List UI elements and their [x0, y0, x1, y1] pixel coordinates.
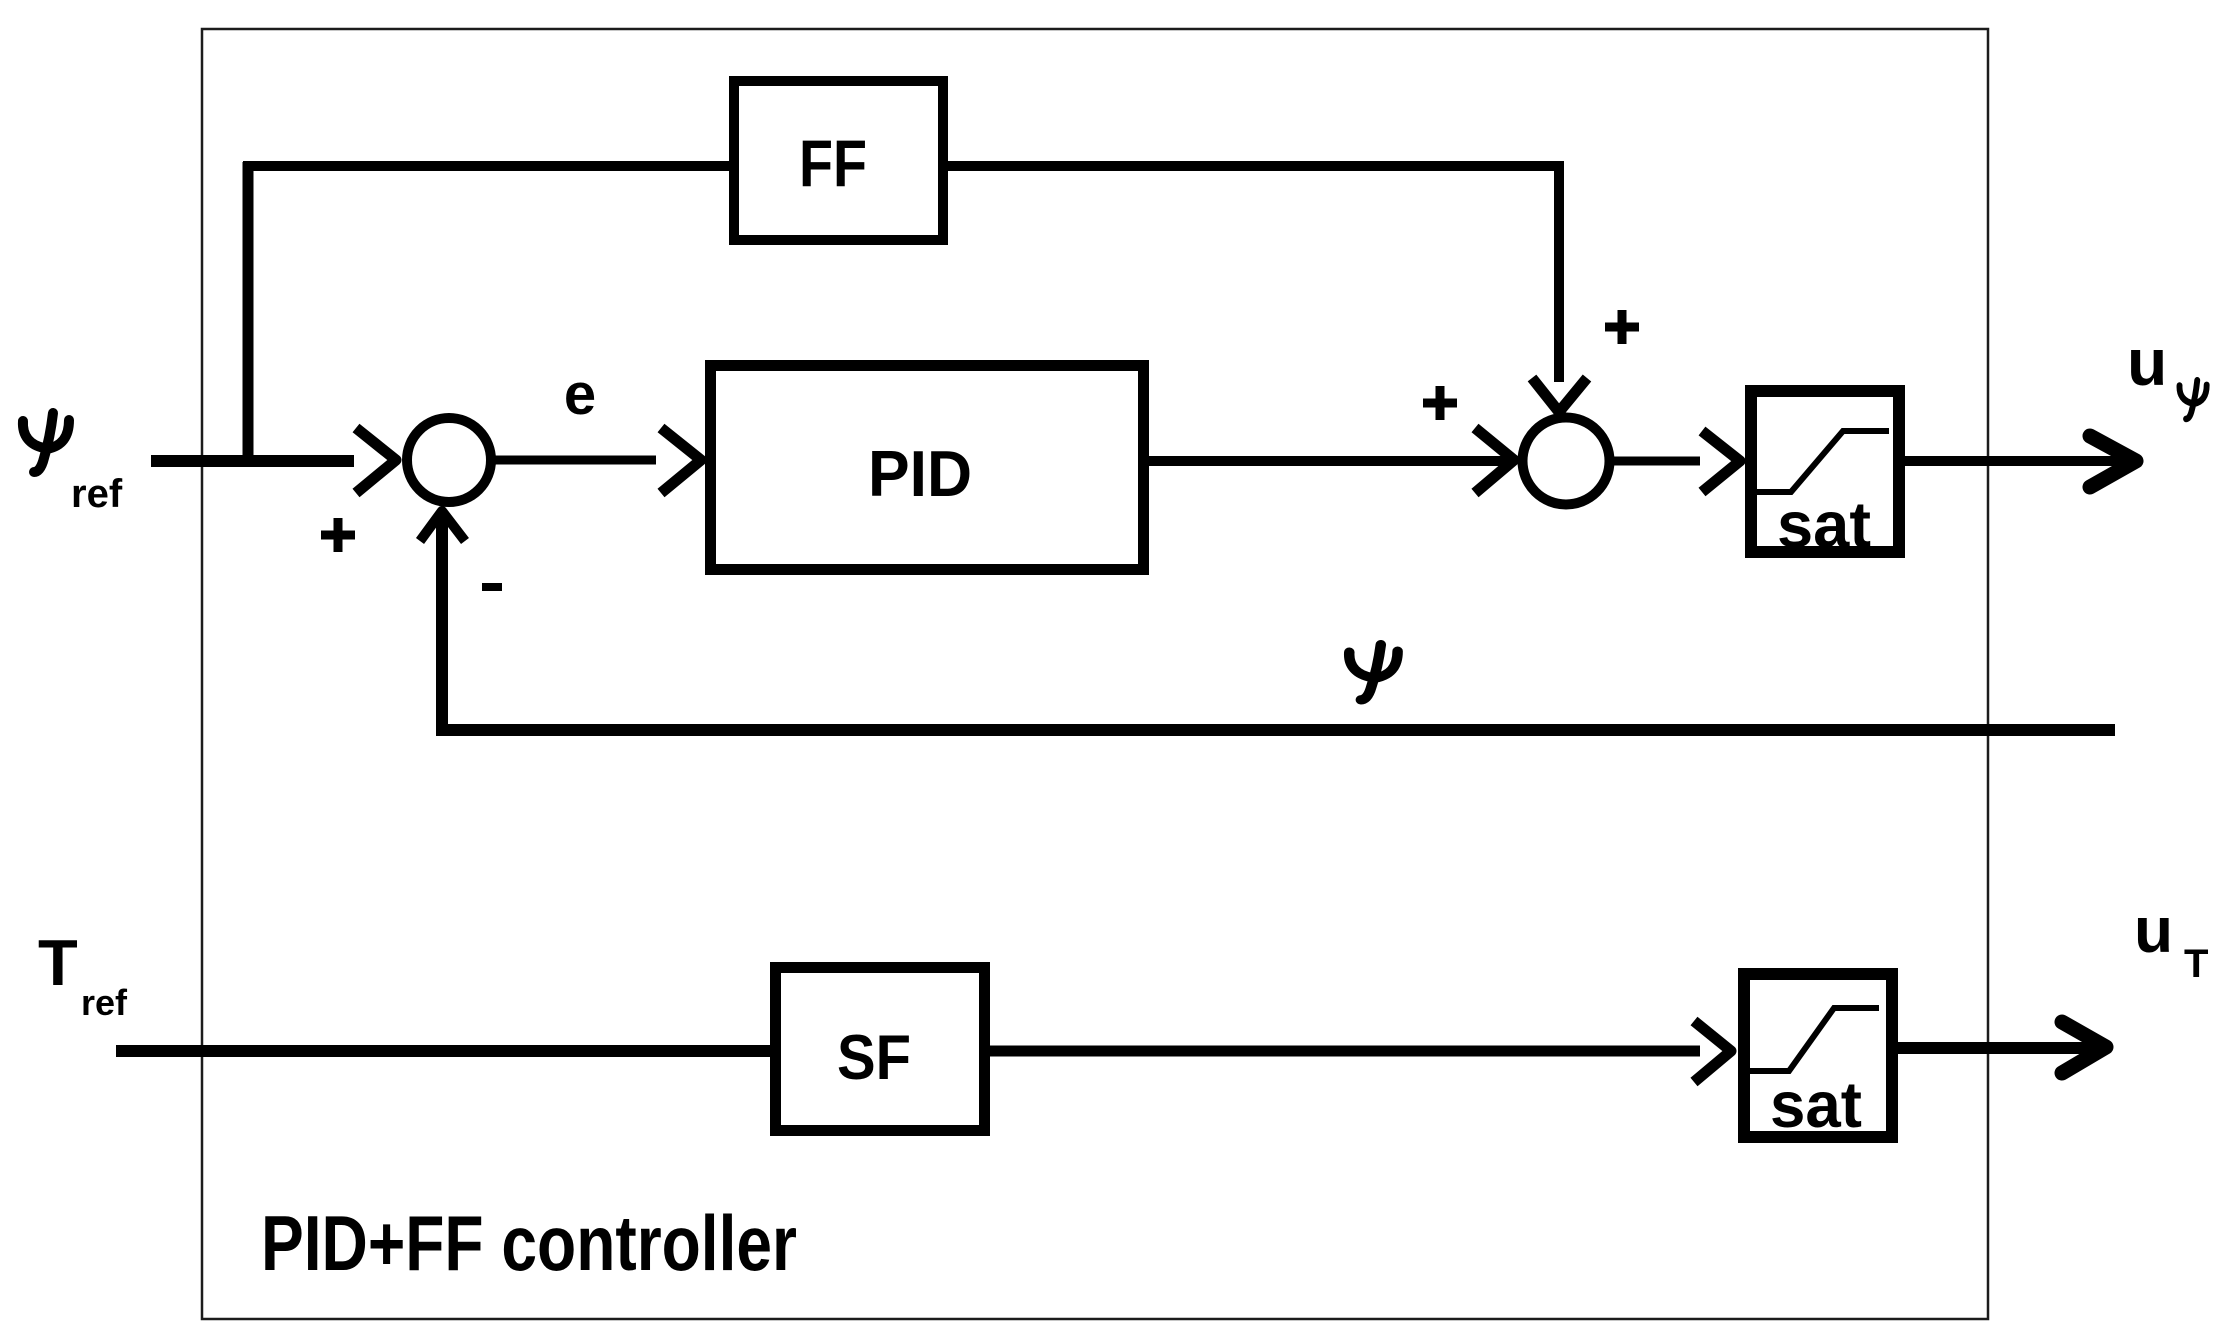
wire: error signal e: [490, 456, 656, 465]
wire: branch riser to FF: [243, 162, 254, 466]
svg-text:ref: ref: [71, 472, 123, 516]
wire: FF input: [243, 161, 733, 171]
label u_T: [2134, 894, 2208, 986]
block FF: [734, 81, 943, 240]
output arrowhead u_T: [2062, 1022, 2106, 1073]
wire: psi feedback: [442, 513, 2115, 730]
svg-text:PID: PID: [868, 437, 972, 510]
wire: psi_ref input: [151, 455, 354, 467]
arrowhead into PID: [661, 428, 701, 493]
plus sign at S1 input: [321, 518, 355, 552]
block PID: [711, 366, 1144, 570]
minus sign at S1 feedback input: [482, 583, 502, 591]
arrowhead up into S1 bottom: [420, 511, 465, 541]
svg-text:ref: ref: [81, 982, 128, 1023]
output arrowhead u_psi: [2090, 436, 2136, 487]
svg-text:sat: sat: [1770, 1068, 1862, 1141]
label T_ref: [38, 926, 128, 1023]
label u_psi: [2127, 325, 2207, 419]
wire: FF output to junction above S2: [943, 166, 1559, 382]
svg-text:PID+FF controller: PID+FF controller: [261, 1199, 797, 1287]
svg-text:e: e: [564, 362, 596, 427]
svg-text:u: u: [2127, 325, 2167, 399]
wire: SF output: [985, 1046, 1700, 1057]
block sat2 (saturation): [1744, 974, 1892, 1141]
summing junction S1: [407, 418, 491, 502]
svg-text:u: u: [2134, 894, 2173, 966]
arrowhead into summing junction S1: [356, 428, 396, 493]
block SF: [776, 968, 985, 1131]
wire: S2 output: [1609, 457, 1700, 466]
controller boundary box (PID+FF controller): [202, 29, 1988, 1319]
svg-text:T: T: [2184, 942, 2208, 986]
arrowhead into sat2: [1694, 1021, 1731, 1082]
svg-text:FF: FF: [799, 126, 867, 200]
block sat1 (saturation): [1751, 391, 1899, 561]
svg-text:sat: sat: [1777, 488, 1871, 561]
wire: sat2 output u_T: [1898, 1042, 2098, 1054]
wire: PID output: [1144, 456, 1512, 466]
arrowhead into summing junction S2 from left: [1475, 428, 1514, 493]
summing junction S2: [1523, 418, 1610, 505]
wire: T_ref input to SF: [116, 1045, 776, 1057]
arrowhead down into summing junction S2: [1532, 378, 1587, 412]
svg-text:T: T: [38, 926, 78, 999]
wire: sat1 output u_psi: [1905, 456, 2128, 466]
arrowhead into sat1: [1702, 431, 1740, 492]
plus sign at S2 top input: [1605, 310, 1639, 344]
svg-text:SF: SF: [837, 1023, 911, 1093]
plus sign at S2 left input: [1423, 386, 1457, 420]
label psi feedback: [1349, 645, 1397, 700]
label psi_ref: [23, 413, 123, 516]
